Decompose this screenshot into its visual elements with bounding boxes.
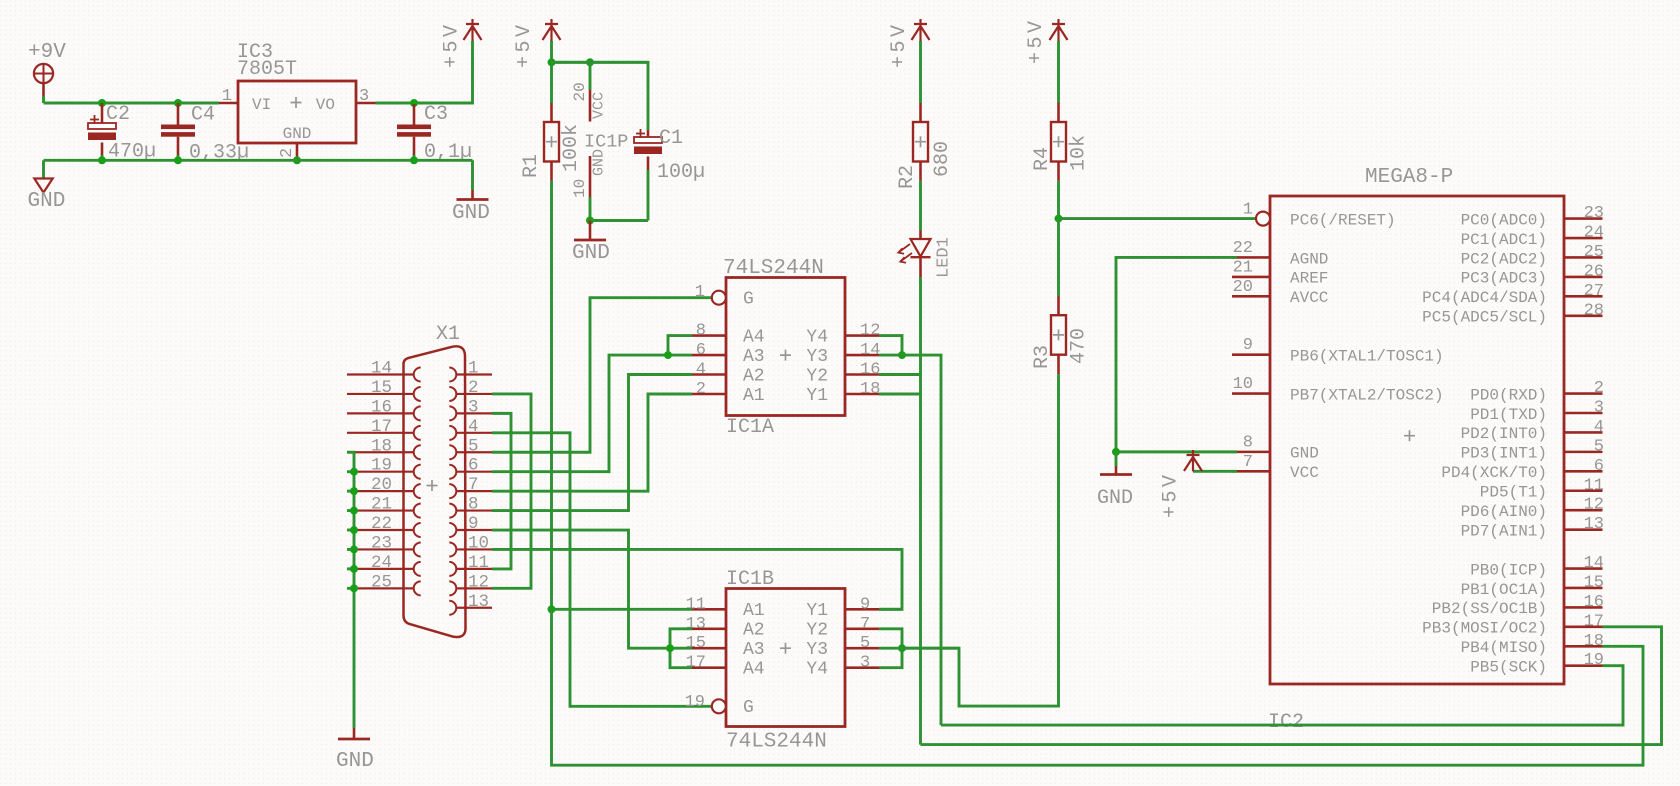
junction gnd IC2 — [1112, 448, 1120, 456]
buffer IC1A body — [726, 278, 845, 416]
IC1B origin — [780, 643, 791, 654]
svg-text:9: 9 — [860, 595, 870, 614]
svg-text:PC1(ADC1): PC1(ADC1) — [1461, 231, 1547, 249]
pin 24 X1 — [347, 568, 414, 570]
wire X1 pin 21 to bus — [347, 509, 354, 512]
junction IC1P vcc — [586, 58, 594, 66]
wire +5V to R4 — [1057, 41, 1060, 103]
pin C2 top — [101, 103, 104, 123]
pin 12 IC1A — [845, 334, 879, 337]
svg-text:4: 4 — [696, 361, 706, 380]
svg-text:4: 4 — [1594, 418, 1604, 437]
wire R2 to LED — [919, 181, 922, 231]
svg-text:14: 14 — [1584, 554, 1604, 573]
svg-text:Y1: Y1 — [806, 386, 828, 406]
svg-text:A2: A2 — [743, 366, 765, 386]
pin 1 bubble IC2 — [1256, 212, 1270, 226]
pin 13 X1 — [456, 607, 492, 609]
wire C2 to gnd rail — [101, 155, 104, 160]
svg-text:IC2: IC2 — [1268, 711, 1304, 734]
pin 9 IC1B — [845, 608, 879, 611]
wire X1 pin4 to IC1B G — [492, 433, 712, 706]
junction C2 bottom — [98, 156, 106, 164]
pin 17 IC1B — [692, 666, 726, 669]
svg-text:12: 12 — [1584, 496, 1604, 515]
svg-text:13: 13 — [468, 592, 489, 612]
pin C3 top — [413, 104, 416, 125]
wire IC1A Y4 to Y3 net — [879, 336, 902, 356]
svg-text:GND: GND — [572, 242, 610, 265]
pin 19 X1 contact arc — [414, 465, 421, 479]
pin R4 bottom — [1057, 162, 1060, 181]
svg-text:G: G — [743, 698, 754, 718]
pin 18 IC1A — [845, 393, 879, 396]
svg-text:+5V: +5V — [441, 21, 464, 68]
pin of right GND symbol — [471, 190, 474, 199]
svg-text:A4: A4 — [743, 660, 765, 680]
svg-text:A1: A1 — [743, 601, 765, 621]
svg-text:GND: GND — [283, 125, 312, 143]
svg-text:6: 6 — [468, 456, 479, 476]
pin 9 X1 — [456, 529, 492, 531]
IC1A origin — [780, 350, 791, 361]
IC2 origin — [1404, 430, 1415, 441]
wire IC1A A4 to A3 net — [668, 336, 692, 356]
svg-text:1: 1 — [468, 359, 479, 379]
ground symbol (bar, right) — [457, 198, 489, 201]
ground symbol (bar, IC2) — [1100, 473, 1132, 476]
svg-text:3: 3 — [468, 397, 479, 417]
pin 10 X1 — [456, 548, 492, 550]
pin C1 bottom — [647, 157, 650, 171]
wire X1 pin2 to pin12 loop — [492, 394, 531, 588]
wire +5V to junction — [550, 41, 553, 62]
svg-text:470: 470 — [1068, 328, 1091, 364]
svg-text:27: 27 — [1584, 282, 1604, 301]
wire PB5/SCK net — [941, 666, 1623, 725]
wire X1 pin 19 to bus — [347, 470, 354, 473]
svg-text:4: 4 — [468, 417, 479, 437]
svg-text:7: 7 — [860, 615, 870, 634]
wire +5V to R2 — [919, 41, 922, 103]
supply +9V symbol — [34, 64, 53, 83]
pin 15 X1 — [347, 393, 414, 395]
pin 12 X1 — [456, 587, 492, 589]
pin 21 IC2 — [1232, 276, 1270, 279]
pin 23 X1 contact arc — [414, 542, 421, 556]
pin 18 X1 — [347, 451, 414, 453]
svg-text:A3: A3 — [743, 347, 765, 367]
svg-text:PD5(T1): PD5(T1) — [1480, 484, 1547, 502]
pin LED anode — [919, 231, 922, 240]
svg-text:PD1(TXD): PD1(TXD) — [1470, 406, 1547, 424]
pin 20 X1 — [347, 490, 414, 492]
supply +5V arrow (R1 column) — [543, 19, 561, 41]
pin 16 IC2 — [1564, 606, 1603, 609]
ground symbol (triangle) — [34, 179, 52, 193]
svg-text:8: 8 — [468, 495, 479, 515]
svg-text:9: 9 — [1243, 336, 1253, 355]
svg-text:15: 15 — [686, 634, 706, 653]
svg-text:VCC: VCC — [1290, 464, 1319, 482]
wire X1 pin5 to IC1A G — [492, 298, 712, 453]
pin 24 IC2 — [1564, 237, 1603, 240]
pin R2 bottom — [919, 162, 922, 181]
pin 15 IC2 — [1564, 587, 1603, 590]
wire gnd junction down — [1115, 452, 1118, 466]
wire vcc drop — [589, 62, 592, 90]
resistor R2 origin — [915, 136, 926, 147]
svg-text:680: 680 — [931, 141, 954, 177]
svg-text:20: 20 — [371, 475, 392, 495]
pin 18 IC2 — [1564, 645, 1603, 648]
wire IC1B Y3 out — [879, 647, 959, 650]
pin 2 IC2 — [1564, 392, 1603, 395]
wire X1 pin 23 to bus — [347, 548, 354, 551]
pin 4 IC1A — [692, 373, 726, 376]
pin of GND symbol under IC1P — [589, 221, 592, 240]
pin 6 X1 contact arc — [449, 465, 456, 479]
svg-text:16: 16 — [1584, 593, 1604, 612]
svg-text:PB5(SCK): PB5(SCK) — [1470, 659, 1547, 677]
pin 2 IC3 — [296, 143, 299, 160]
pin 16 X1 — [347, 412, 414, 414]
pin 21 X1 — [347, 509, 414, 511]
IC3 origin — [291, 97, 302, 108]
pin C4 top — [177, 103, 180, 125]
junction gnd bus pin 21 — [350, 507, 358, 515]
svg-text:3: 3 — [359, 87, 369, 106]
svg-text:23: 23 — [1584, 204, 1604, 223]
pin 4 X1 — [456, 432, 492, 434]
svg-text:GND: GND — [452, 202, 490, 225]
wire IC3 out to +5V — [376, 41, 473, 103]
svg-text:1: 1 — [1243, 201, 1253, 220]
wire X1 pin7 to IC1A A1 — [492, 394, 692, 491]
svg-text:2: 2 — [696, 380, 706, 399]
pin C4 bottom — [177, 137, 180, 155]
pin 25 IC2 — [1564, 256, 1603, 259]
microcontroller IC2 body — [1270, 196, 1564, 684]
svg-text:PB4(MISO): PB4(MISO) — [1461, 639, 1547, 657]
pin 17 X1 — [347, 432, 414, 434]
regulator IC3 body — [238, 81, 356, 143]
svg-text:VO: VO — [316, 96, 335, 114]
svg-text:PB2(SS/OC1B): PB2(SS/OC1B) — [1432, 600, 1547, 618]
junction C3 bottom — [410, 156, 418, 164]
svg-text:Y2: Y2 — [806, 621, 828, 641]
wire gnd bus X1 — [347, 452, 354, 728]
svg-text:PC2(ADC2): PC2(ADC2) — [1461, 250, 1547, 268]
svg-text:24: 24 — [371, 553, 392, 573]
pin 17 IC2 — [1564, 626, 1603, 629]
capacitor C1 — [634, 129, 662, 154]
pin 9 IC2 — [1232, 353, 1270, 356]
svg-text:19: 19 — [371, 456, 392, 476]
pin 12 X1 contact arc — [449, 581, 456, 595]
pin 8 X1 contact arc — [449, 504, 456, 518]
wire gnd rail to GND symbol — [42, 160, 45, 178]
junction C3 top — [410, 99, 418, 107]
svg-text:PD6(AIN0): PD6(AIN0) — [1461, 503, 1547, 521]
svg-text:R1: R1 — [520, 154, 543, 178]
svg-text:8: 8 — [1243, 433, 1253, 452]
wire X1 pin10 to IC1B Y1 — [492, 549, 902, 609]
svg-text:PB7(XTAL2/TOSC2): PB7(XTAL2/TOSC2) — [1290, 386, 1444, 404]
wire R1 to MISO net — [550, 181, 553, 610]
svg-text:18: 18 — [1584, 632, 1604, 651]
svg-text:16: 16 — [860, 361, 880, 380]
junction C4 bottom — [174, 156, 182, 164]
pin 8 IC2 — [1232, 451, 1270, 454]
wire IC1A Y3 to SCK column — [879, 355, 941, 725]
svg-text:PC3(ADC3): PC3(ADC3) — [1461, 270, 1547, 288]
wire PB3/MOSI net — [921, 627, 1662, 745]
pin 3 IC1B — [845, 666, 879, 669]
pin 7 X1 contact arc — [449, 484, 456, 498]
supply +5V arrow (IC2 VCC) — [1184, 450, 1202, 471]
pin 11 IC2 — [1564, 489, 1603, 492]
svg-text:G: G — [743, 290, 754, 310]
resistor R4 origin — [1053, 136, 1064, 147]
pin 23 IC2 — [1564, 217, 1603, 220]
supply +5V arrow (R2 column) — [912, 19, 930, 41]
resistor R2 — [913, 122, 928, 162]
svg-text:74LS244N: 74LS244N — [726, 731, 827, 754]
wire PB4/MISO net — [552, 609, 1644, 765]
wire R3 to buffer outputs — [902, 374, 1059, 706]
wire reset node to R3 — [1057, 219, 1060, 296]
svg-text:1: 1 — [222, 87, 232, 106]
svg-text:PD7(AIN1): PD7(AIN1) — [1461, 522, 1547, 540]
pin R1 bottom — [550, 162, 553, 181]
svg-text:PD4(XCK/T0): PD4(XCK/T0) — [1441, 464, 1547, 482]
svg-text:Y4: Y4 — [806, 327, 828, 347]
pin 11 IC1B — [692, 608, 726, 611]
junction gnd bus pin 25 — [350, 584, 358, 592]
svg-text:2: 2 — [468, 378, 479, 398]
pin 19 G bubble IC1B — [712, 699, 726, 713]
svg-text:5: 5 — [468, 436, 479, 456]
pin of +9V supply — [42, 83, 45, 96]
pin 22 X1 contact arc — [414, 523, 421, 537]
wire gnd rail right end down — [471, 160, 474, 190]
pin 5 X1 — [456, 451, 492, 453]
junction IC3 gnd pin — [293, 156, 301, 164]
svg-text:7: 7 — [1243, 453, 1253, 472]
wire X1 pin 20 to bus — [347, 490, 354, 493]
junction A2/A3/A4 IC1B — [666, 644, 674, 652]
pin of GND symbol under IC2 — [1115, 466, 1118, 474]
junction Y2/Y3/Y4 IC1B — [898, 644, 906, 652]
svg-text:GND: GND — [336, 750, 374, 773]
svg-text:11: 11 — [686, 595, 706, 614]
wire C1 top branch — [552, 62, 649, 130]
pin 3 X1 — [456, 412, 492, 414]
pin 15 X1 contact arc — [414, 387, 421, 401]
resistor R1 — [544, 122, 559, 162]
wire IC1B A2/A4 bracket — [670, 629, 692, 668]
svg-text:C3: C3 — [424, 103, 448, 126]
pin R3 bottom — [1057, 355, 1060, 374]
svg-text:19: 19 — [685, 693, 705, 712]
pin 21 X1 contact arc — [414, 504, 421, 518]
svg-text:15: 15 — [1584, 573, 1604, 592]
pin R3 top — [1057, 296, 1060, 315]
svg-text:15: 15 — [371, 378, 392, 398]
svg-text:21: 21 — [1233, 258, 1253, 277]
junction gnd bus pin 22 — [350, 526, 358, 534]
pin 7 X1 — [456, 490, 492, 492]
svg-text:GND: GND — [1290, 445, 1319, 463]
pin 22 X1 — [347, 529, 414, 531]
svg-text:74LS244N: 74LS244N — [723, 257, 824, 280]
svg-text:16: 16 — [371, 397, 392, 417]
svg-text:22: 22 — [1233, 239, 1253, 258]
svg-text:12: 12 — [468, 572, 489, 592]
svg-text:19: 19 — [1584, 651, 1604, 670]
pin 18 X1 contact arc — [414, 445, 421, 459]
svg-text:10: 10 — [468, 533, 489, 553]
pin 1 X1 contact arc — [449, 368, 456, 382]
wire C4 to gnd rail — [177, 155, 180, 160]
pin 11 X1 — [456, 568, 492, 570]
supply +5V arrow (R4 column) — [1050, 19, 1068, 41]
resistor R4 — [1051, 122, 1066, 162]
wire +9V to rail — [42, 96, 45, 103]
junction gnd bus pin 24 — [350, 565, 358, 573]
svg-text:24: 24 — [1584, 224, 1604, 243]
svg-text:C1: C1 — [659, 127, 683, 150]
wire IC1A Y1 to MOSI column — [879, 393, 921, 396]
svg-text:1: 1 — [695, 283, 705, 302]
wire IC1B Y1 up — [879, 608, 902, 611]
svg-text:100µ: 100µ — [657, 161, 705, 184]
junction reset node — [1055, 215, 1063, 223]
wire X1 pin6 to IC1A A3 — [492, 355, 692, 472]
pin LED cathode — [919, 257, 922, 277]
svg-text:A3: A3 — [743, 640, 765, 660]
pin 3 IC2 — [1564, 412, 1603, 415]
svg-text:18: 18 — [860, 380, 880, 399]
svg-text:14: 14 — [371, 359, 392, 379]
ground symbol (bar, X1) — [338, 738, 370, 741]
pin 22 IC2 — [1232, 256, 1270, 259]
svg-text:12: 12 — [860, 322, 880, 341]
wire IC1P gnd to junction — [589, 197, 592, 221]
resistor R3 — [1051, 315, 1066, 355]
svg-text:2: 2 — [1594, 379, 1604, 398]
svg-text:R3: R3 — [1031, 345, 1054, 369]
svg-text:Y4: Y4 — [806, 660, 828, 680]
wire C3 to gnd rail — [413, 155, 416, 160]
pin of GND symbol under X1 — [353, 728, 356, 739]
pin 2 X1 contact arc — [449, 387, 456, 401]
pin 3 X1 contact arc — [449, 406, 456, 420]
pin 8 IC1A — [692, 334, 726, 337]
pin 8 X1 — [456, 509, 492, 511]
pin 16 X1 contact arc — [414, 406, 421, 420]
svg-text:10k: 10k — [1068, 135, 1091, 171]
junction gnd bus pin 19 — [350, 468, 358, 476]
svg-text:LED1: LED1 — [935, 237, 954, 278]
svg-text:PB6(XTAL1/TOSC1): PB6(XTAL1/TOSC1) — [1290, 347, 1444, 365]
svg-text:PB1(OC1A): PB1(OC1A) — [1461, 581, 1547, 599]
wire gnd rail — [44, 159, 473, 162]
wire AGND to gnd — [1116, 257, 1237, 451]
junction gnd bus pin 20 — [350, 487, 358, 495]
svg-text:A2: A2 — [743, 621, 765, 641]
svg-text:A1: A1 — [743, 386, 765, 406]
pin 6 IC2 — [1564, 470, 1603, 473]
pin 15 IC1B — [692, 647, 726, 650]
svg-text:23: 23 — [371, 533, 392, 553]
svg-text:+5V: +5V — [888, 21, 911, 68]
pin 17 X1 contact arc — [414, 426, 421, 440]
svg-text:5: 5 — [860, 634, 870, 653]
pin 10 GND IC1P — [589, 156, 592, 197]
svg-text:13: 13 — [686, 615, 706, 634]
svg-text:3: 3 — [860, 654, 870, 673]
svg-text:X1: X1 — [436, 323, 460, 346]
pin 6 IC1A — [692, 354, 726, 357]
pin 1 X1 — [456, 373, 492, 375]
pin 28 IC2 — [1564, 314, 1603, 317]
svg-text:+5V: +5V — [1025, 17, 1048, 64]
wire reset node to IC2 pin1 — [1059, 217, 1256, 220]
svg-text:6: 6 — [1594, 457, 1604, 476]
pin 20 VCC IC1P — [589, 90, 592, 122]
junction R1 top — [548, 58, 556, 66]
svg-text:R4: R4 — [1031, 147, 1054, 171]
svg-text:PC0(ADC0): PC0(ADC0) — [1461, 211, 1547, 229]
pin 6 X1 — [456, 471, 492, 473]
svg-text:VI: VI — [252, 96, 271, 114]
wire IC1A Y2 to MOSI column — [879, 373, 921, 376]
capacitor C3 — [397, 125, 431, 137]
svg-text:AVCC: AVCC — [1290, 289, 1328, 307]
pin 5 X1 contact arc — [449, 445, 456, 459]
svg-text:8: 8 — [696, 322, 706, 341]
pin C1 top — [647, 130, 650, 137]
wire X1 pin 24 to bus — [347, 567, 354, 570]
svg-text:+9V: +9V — [28, 41, 66, 64]
svg-text:100k: 100k — [560, 124, 583, 172]
wire X1 pin3 to pin11 loop — [492, 413, 511, 569]
wire X1 pin8 to IC1A A2 — [492, 375, 692, 511]
pin 25 X1 — [347, 587, 414, 589]
wire junction to IC1P VCC — [552, 61, 649, 64]
svg-text:18: 18 — [371, 436, 392, 456]
svg-text:21: 21 — [371, 495, 392, 515]
wire X1 pin 22 to bus — [347, 529, 354, 532]
svg-text:7805T: 7805T — [237, 58, 297, 81]
pin 27 IC2 — [1564, 295, 1603, 298]
buffer IC1B body — [726, 589, 845, 727]
svg-text:R2: R2 — [896, 165, 919, 189]
svg-text:PD3(INT1): PD3(INT1) — [1461, 445, 1547, 463]
svg-text:Y2: Y2 — [806, 366, 828, 386]
svg-text:GND: GND — [28, 190, 66, 213]
junction IC1P gnd — [586, 217, 594, 225]
svg-text:26: 26 — [1584, 262, 1604, 281]
resistor R1 origin — [546, 136, 557, 147]
svg-text:PC5(ADC5/SCL): PC5(ADC5/SCL) — [1422, 309, 1547, 327]
svg-text:20: 20 — [1233, 278, 1253, 297]
svg-text:MEGA8-P: MEGA8-P — [1365, 166, 1453, 189]
pin R2 top — [919, 103, 922, 122]
pin 7 IC2 — [1232, 470, 1270, 473]
